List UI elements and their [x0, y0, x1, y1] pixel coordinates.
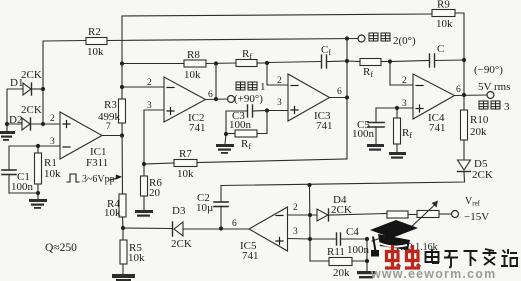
wire D2 anode lead	[7, 123, 22, 125]
wire R2 right to output2	[107, 39, 358, 41]
ground under C5	[367, 144, 384, 151]
svg-text:R7: R7	[179, 148, 192, 160]
potentiometer RP	[372, 201, 439, 242]
wire pot to -15V terminal	[439, 213, 451, 215]
svg-text:10k: 10k	[436, 18, 453, 30]
resistor R10	[461, 110, 468, 140]
wire IC5 pin3 line	[288, 238, 311, 241]
wire R12 to pot	[408, 214, 417, 216]
resistor Rf2	[347, 59, 390, 66]
svg-text:C4: C4	[346, 226, 359, 238]
wire R10 to D5	[463, 140, 465, 160]
svg-text:741: 741	[429, 122, 446, 134]
svg-text:3~6Vpp: 3~6Vpp	[82, 174, 115, 185]
wire IC1 pin3 input	[9, 146, 60, 169]
resistor Rf1	[236, 60, 257, 67]
wire D1 left lead	[7, 89, 23, 124]
op-amp IC3 741	[288, 74, 330, 121]
resistor Rf4	[394, 108, 401, 152]
wire left vertical node (IC2 inverting input bus)	[121, 16, 123, 99]
svg-text:Q≈250: Q≈250	[45, 242, 77, 254]
svg-text:R3: R3	[104, 99, 117, 111]
wire IC4 pin3 input	[376, 107, 413, 109]
svg-text:7: 7	[106, 122, 111, 132]
capacitor C2	[214, 186, 228, 229]
resistor R12	[387, 211, 408, 218]
svg-text:2: 2	[277, 76, 282, 86]
wire R7 to IC2 pin3 node	[144, 163, 174, 164]
diode D3	[174, 222, 183, 236]
svg-text:2: 2	[293, 203, 298, 213]
svg-text:6: 6	[337, 87, 342, 97]
svg-text:(+90°): (+90°)	[234, 93, 263, 105]
svg-text:R9: R9	[437, 0, 450, 11]
wire IC3 output	[330, 97, 348, 99]
svg-text:D3: D3	[172, 205, 186, 217]
diode D4	[317, 209, 328, 221]
svg-text:100n: 100n	[11, 181, 34, 193]
svg-text:10k: 10k	[184, 69, 201, 81]
svg-text:R10: R10	[470, 114, 489, 126]
svg-text:R11: R11	[327, 246, 345, 258]
svg-text:20: 20	[149, 187, 161, 199]
terminal output3	[487, 92, 494, 99]
ground under R1/C1	[29, 193, 47, 209]
node label output1 (Chinese)	[236, 82, 257, 90]
svg-text:20k: 20k	[470, 126, 487, 138]
diode D2	[22, 118, 30, 130]
wire top feedback line R9 left	[122, 14, 432, 16]
capacitor C3	[226, 105, 267, 134]
svg-text:3: 3	[293, 227, 298, 237]
watermark text dianzi xiazaizhan (Chinese)	[426, 249, 518, 268]
svg-text:100n: 100n	[352, 128, 375, 140]
svg-text:100n: 100n	[347, 244, 370, 256]
wire D4 to R12	[329, 214, 387, 216]
svg-text:10k: 10k	[177, 168, 194, 180]
svg-text:2(0°): 2(0°)	[393, 35, 416, 47]
ground under R11 node	[357, 271, 376, 278]
svg-text:741: 741	[242, 250, 259, 262]
wire IC3 pin3 input	[267, 110, 288, 112]
wire IC3 output vertical bus	[346, 39, 348, 160]
svg-text:(−90°): (−90°)	[474, 64, 503, 76]
op-amp IC1 F311	[60, 112, 102, 159]
capacitor Cf	[267, 55, 347, 68]
svg-text:F311: F311	[86, 157, 108, 169]
wire D3 line from R4 node	[123, 227, 172, 230]
svg-text:R8: R8	[187, 49, 200, 61]
wire R9 right to right vertical	[455, 13, 464, 60]
capacitor C5	[368, 108, 384, 144]
wire vertical C2 line to IC5 inputs	[309, 185, 312, 239]
diode D5	[458, 160, 471, 170]
svg-text:10k: 10k	[104, 207, 121, 219]
resistor R1	[35, 146, 42, 193]
svg-text:3: 3	[402, 99, 407, 109]
svg-text:2CK: 2CK	[21, 104, 42, 116]
wire R3 bottom to IC1 output node	[121, 123, 124, 194]
watermark red chong chars	[385, 245, 420, 268]
wire IC3 pin2 drop	[267, 63, 288, 85]
ground at D2 anode	[0, 124, 15, 141]
terminal output2	[358, 35, 365, 42]
svg-text:2CK: 2CK	[171, 238, 192, 250]
wire D1 cathode to node	[32, 88, 44, 90]
capacitor C4	[310, 233, 367, 245]
square wave symbol 3~6Vpp	[67, 174, 122, 182]
terminal output1	[228, 96, 235, 103]
watermark graduation cap	[370, 220, 418, 257]
svg-text:2: 2	[147, 78, 152, 88]
svg-text:2CK: 2CK	[472, 169, 493, 181]
svg-text:3: 3	[277, 98, 282, 108]
wire node down D1 to D2	[42, 89, 44, 124]
wire IC5 pin2 line	[288, 214, 318, 216]
svg-text:3: 3	[50, 137, 55, 147]
svg-text:741: 741	[316, 120, 333, 132]
svg-text:2: 2	[402, 76, 407, 86]
op-amp IC4 741	[413, 74, 455, 119]
wire IC2 output up to R8 node	[215, 64, 217, 100]
svg-text:2CK: 2CK	[21, 69, 42, 81]
resistor R4	[119, 194, 126, 217]
wire R5 bottom to ground	[122, 264, 124, 274]
svg-text:R2: R2	[88, 26, 101, 38]
wire IC2 output	[206, 98, 228, 101]
capacitor C1	[2, 170, 38, 193]
svg-text:1: 1	[260, 81, 266, 93]
ground under R6	[135, 210, 153, 217]
svg-text:10k: 10k	[87, 46, 104, 58]
wire D3 node down to R5	[122, 228, 124, 240]
resistor R7	[174, 160, 197, 167]
wire right vertical C node to IC4 output	[463, 60, 465, 110]
op-amp IC5 741	[249, 207, 288, 251]
wire D5 to bottom line	[221, 172, 465, 186]
node label output2 (Chinese)	[369, 33, 390, 41]
svg-text:741: 741	[189, 122, 206, 134]
IC op-amp +/- signs	[63, 86, 423, 245]
node label output3 (Chinese)	[479, 101, 500, 109]
ground at C3/Rf3	[216, 134, 234, 154]
svg-text:6: 6	[232, 219, 237, 229]
svg-text:20k: 20k	[333, 267, 350, 279]
svg-text:2CK: 2CK	[331, 204, 352, 216]
svg-text:www.eeworm.com: www.eeworm.com	[370, 267, 496, 281]
svg-text:10µ: 10µ	[196, 202, 213, 214]
wire D3 to IC5 output	[183, 228, 249, 230]
resistor Rf3	[226, 111, 267, 138]
svg-text:5V rms: 5V rms	[478, 81, 511, 93]
svg-text:10k: 10k	[128, 252, 145, 264]
svg-text:3: 3	[147, 101, 152, 111]
wire R2 net: IC1 node to output2 terminal	[43, 41, 86, 90]
svg-text:6: 6	[456, 85, 461, 95]
svg-text:10k: 10k	[44, 168, 61, 180]
svg-text:6: 6	[208, 90, 213, 100]
ground under Rf4	[389, 152, 406, 159]
wire IC4 output	[455, 94, 488, 97]
wire IC2 pin3 input	[144, 110, 164, 164]
wire R7 line from IC3 bus	[197, 159, 347, 163]
resistor R9	[432, 10, 455, 17]
resistor R6	[141, 164, 148, 210]
resistor R2	[86, 38, 107, 45]
wire D2 cathode to IC1 pin2	[31, 123, 61, 125]
resistor R11	[310, 239, 367, 266]
op-amp IC2 741	[164, 77, 206, 122]
CJK pseudo-glyph texts	[234, 33, 510, 113]
diode D1	[23, 83, 31, 95]
wire R4 bottom to D3 node	[122, 217, 125, 228]
resistor R3	[119, 99, 126, 123]
svg-text:100n: 100n	[229, 119, 252, 131]
terminal Vref -15V	[452, 211, 459, 218]
svg-text:3: 3	[504, 101, 510, 113]
resistor R8	[184, 60, 206, 67]
resistor R5	[120, 240, 127, 264]
wire Rf1 to IC3 pin2 node	[257, 62, 267, 64]
wire C4/R11 node to ground	[366, 239, 368, 271]
wire IC2 pin2 input	[122, 86, 164, 88]
svg-text:C: C	[437, 43, 444, 55]
wire R8 left lead	[122, 63, 184, 65]
wire Rf2 node down to IC4 pin2	[390, 62, 413, 86]
capacitor C	[390, 54, 464, 67]
svg-text:2: 2	[50, 114, 55, 124]
wire R8 to Rf1	[206, 62, 236, 65]
svg-text:−15V: −15V	[464, 211, 489, 223]
wire IC1 output	[102, 135, 122, 137]
